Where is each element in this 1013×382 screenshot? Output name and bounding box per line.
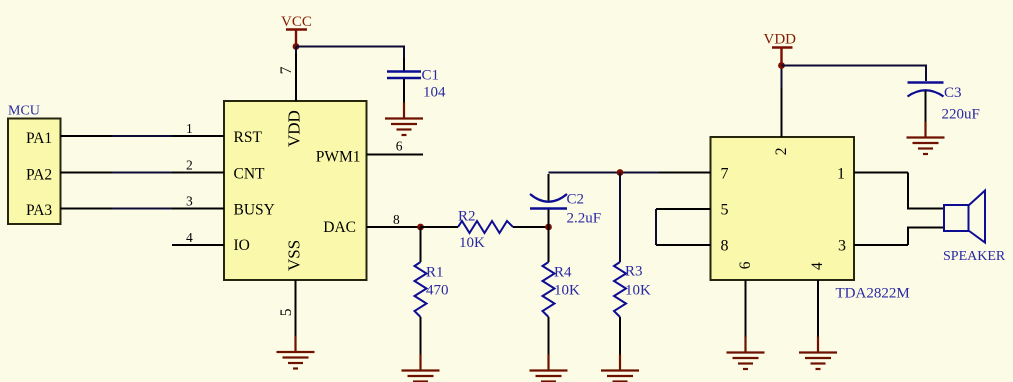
U1 pin 8 DAC [367, 226, 421, 228]
svg-text:104: 104 [423, 85, 446, 101]
MCU pin PA3 [61, 208, 113, 210]
svg-text:VDD: VDD [764, 31, 797, 47]
R2 zigzag [458, 221, 513, 233]
svg-text:CNT: CNT [234, 166, 266, 183]
svg-text:VCC: VCC [281, 14, 312, 30]
U2 pin 8 [656, 244, 711, 246]
svg-text:7: 7 [278, 66, 295, 74]
VCC stem [295, 30, 297, 47]
U2 pin 2 [781, 87, 783, 137]
svg-text:VDD: VDD [285, 110, 304, 147]
svg-text:R1: R1 [426, 265, 444, 281]
svg-text:220uF: 220uF [942, 106, 980, 122]
svg-text:6: 6 [737, 261, 754, 269]
resistor R3 [614, 173, 651, 355]
ground under C1 [385, 103, 423, 136]
VCC bar [286, 28, 307, 30]
C2 bottom lead [548, 210, 550, 228]
svg-text:TDA2822M: TDA2822M [836, 285, 910, 301]
svg-text:1: 1 [186, 121, 193, 136]
U2 pin 3 [854, 244, 908, 246]
C1 bottom lead [403, 79, 405, 103]
U2 pin 4 [817, 280, 819, 338]
svg-text:3: 3 [838, 238, 846, 255]
wire feedback loop pin5-pin8 [655, 209, 657, 245]
R3 bottom lead [619, 317, 621, 355]
U2 pin 5 [656, 208, 711, 210]
svg-text:2: 2 [186, 158, 193, 173]
R3 zigzag [614, 262, 626, 317]
svg-text:MCU: MCU [8, 104, 40, 119]
U2 pin 1 [854, 172, 908, 174]
R1 bottom lead [420, 317, 422, 355]
svg-text:R3: R3 [625, 264, 643, 280]
ground under C3 [907, 122, 945, 155]
ground under R1 [402, 355, 440, 382]
speaker horn [969, 191, 986, 243]
svg-text:PA1: PA1 [26, 130, 52, 147]
U2 body [711, 137, 855, 280]
R4 top lead [548, 227, 550, 262]
svg-text:10K: 10K [554, 283, 580, 299]
wire PA3-BUSY [112, 208, 172, 210]
C1 plate 1 [387, 70, 421, 72]
ground under VSS [277, 336, 315, 369]
svg-text:2: 2 [773, 147, 790, 155]
wire VCC down [295, 47, 297, 54]
R2 left lead [421, 226, 459, 228]
C1 top lead [403, 58, 405, 71]
power symbol VCC [281, 14, 312, 47]
voice chip U1 body [224, 101, 367, 280]
svg-text:R2: R2 [458, 208, 476, 224]
U1 pin 4 IO [172, 244, 224, 246]
svg-text:PA3: PA3 [26, 202, 52, 219]
svg-text:5: 5 [721, 202, 729, 219]
U1 pin 6 PWM1 [367, 154, 424, 156]
R3 top lead [619, 173, 621, 263]
C3 flat plate [908, 81, 944, 83]
VDD stem [780, 48, 782, 66]
svg-text:IO: IO [234, 237, 250, 254]
U1 pin 1 RST [172, 135, 224, 137]
C3 bottom lead [925, 91, 927, 122]
junction dot VCC node [293, 43, 300, 50]
svg-text:C1: C1 [422, 68, 440, 84]
svg-text:10K: 10K [459, 235, 485, 251]
resistor R2 [421, 208, 549, 251]
C3 curved plate [908, 90, 944, 96]
R1 top lead [420, 227, 422, 262]
ground under pin 4 [799, 337, 837, 370]
svg-text:10K: 10K [625, 283, 651, 299]
MCU pin PA2 [61, 172, 113, 174]
svg-text:470: 470 [426, 283, 449, 299]
resistor R4 [543, 227, 581, 355]
U1 pin 2 CNT [172, 172, 224, 174]
svg-text:1: 1 [837, 166, 845, 183]
capacitor C1 [387, 58, 446, 103]
VDD bar [772, 46, 793, 48]
wire VDD to pin 2 [781, 66, 783, 89]
svg-text:4: 4 [186, 230, 193, 245]
svg-text:8: 8 [393, 212, 400, 227]
junction dot DAC node [417, 224, 424, 231]
wire PA1-RST [112, 135, 172, 137]
svg-text:4: 4 [809, 262, 826, 270]
svg-text:8: 8 [721, 238, 729, 255]
MCU pin PA1 [61, 135, 113, 137]
svg-text:PWM1: PWM1 [316, 149, 361, 166]
svg-text:6: 6 [396, 139, 403, 154]
junction dot R2/R4/C2 node [545, 224, 552, 231]
C1 plate 2 [387, 77, 421, 79]
U1 pin 7 VDD [295, 52, 297, 101]
junction dot R3 node [617, 169, 624, 176]
power symbol VDD [764, 31, 797, 65]
U1 body [224, 101, 367, 280]
svg-text:3: 3 [186, 194, 193, 209]
svg-text:C3: C3 [944, 85, 962, 101]
R4 zigzag [543, 262, 555, 317]
U2 pin 7 [659, 172, 711, 174]
svg-text:R4: R4 [554, 265, 572, 281]
wire PA2-CNT [112, 172, 172, 174]
C2 flat plate [530, 207, 567, 209]
svg-text:DAC: DAC [323, 219, 356, 236]
svg-text:7: 7 [721, 166, 729, 183]
wire VCC to C1 [296, 47, 404, 59]
ground under pin 6 [727, 337, 765, 370]
speaker LS1 [943, 191, 1006, 265]
svg-text:RST: RST [234, 129, 263, 146]
R1 zigzag [415, 262, 427, 317]
svg-text:BUSY: BUSY [234, 202, 275, 219]
wire VDD to C3 [782, 66, 927, 82]
svg-text:2.2uF: 2.2uF [567, 211, 602, 227]
wire pin3 to speaker [908, 228, 944, 246]
svg-text:C2: C2 [567, 192, 585, 208]
svg-text:5: 5 [278, 308, 295, 316]
ground under R3 [601, 355, 639, 382]
C2 top lead [548, 174, 550, 201]
U1 pin 3 BUSY [172, 208, 224, 210]
wire C2 to U2 pin 7 [549, 172, 660, 174]
amplifier U2 TDA2822M body [711, 137, 910, 301]
capacitor C3 [908, 83, 980, 123]
R2 right lead [513, 226, 549, 228]
U2 pin 6 [745, 280, 747, 338]
svg-text:VSS: VSS [285, 240, 304, 271]
MCU body [8, 119, 61, 225]
svg-text:PA2: PA2 [26, 166, 52, 183]
MCU box [8, 104, 61, 225]
capacitor C2 [530, 174, 601, 227]
C2 curved plate [530, 194, 567, 202]
ground under R4 [530, 355, 568, 382]
junction dot VDD node [778, 62, 785, 69]
resistor R1 [415, 227, 449, 355]
speaker body [944, 205, 969, 231]
svg-text:SPEAKER: SPEAKER [943, 249, 1006, 264]
R4 bottom lead [548, 317, 550, 355]
U1 pin 5 VSS [295, 280, 297, 337]
wire pin1 to speaker [908, 173, 944, 209]
